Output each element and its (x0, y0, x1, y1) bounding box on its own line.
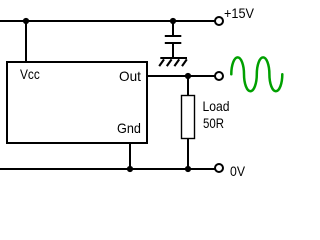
wire junction to resistor top (187, 76, 189, 96)
capacitor C1 bottom plate (165, 42, 182, 44)
wire bottom 0V rail (0, 168, 215, 170)
wire capacitor drop (172, 21, 174, 36)
wire top +15V rail (0, 20, 215, 22)
amplifier box U1 (7, 62, 147, 143)
svg-text:Gnd: Gnd (117, 120, 141, 136)
node junction out / load branch (185, 73, 191, 79)
wire resistor bottom to 0V rail (187, 139, 189, 170)
terminal output (215, 72, 223, 80)
wire Vcc drop (25, 21, 27, 62)
node junction load / rail (185, 166, 191, 172)
svg-text:Load: Load (203, 98, 230, 114)
node junction Gnd / rail (127, 166, 133, 172)
resistor R1 Load 50R (182, 96, 195, 139)
svg-text:0V: 0V (230, 163, 246, 179)
wire capacitor to ground (172, 43, 174, 58)
svg-text:Vcc: Vcc (20, 66, 40, 82)
node junction top rail / Vcc branch (23, 18, 29, 24)
svg-text:+15V: +15V (224, 5, 255, 21)
node junction top rail / capacitor branch (170, 18, 176, 24)
sine wave output signal (231, 57, 282, 91)
wire Gnd pin drop (129, 143, 131, 169)
terminal +15V (215, 17, 223, 25)
ground symbol (159, 58, 187, 66)
terminal 0V (215, 164, 223, 172)
svg-text:50R: 50R (203, 115, 224, 131)
wire Out pin to output terminal (147, 75, 215, 77)
svg-text:Out: Out (119, 68, 141, 84)
capacitor C1 top plate (165, 35, 182, 37)
